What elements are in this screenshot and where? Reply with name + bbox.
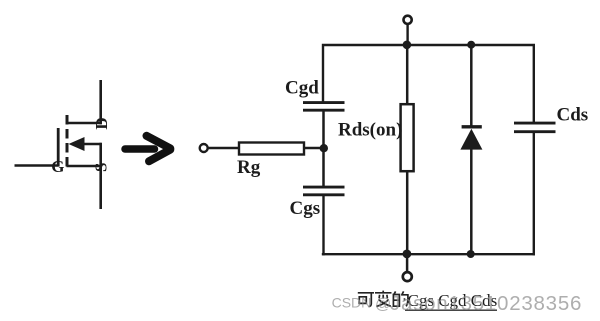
svg-text:Cgs: Cgs <box>290 198 321 219</box>
svg-text:S: S <box>92 163 111 172</box>
drain terminal (top) <box>404 16 412 24</box>
wire top rail <box>323 45 534 122</box>
svg-text:Rg: Rg <box>237 157 261 178</box>
big transform arrow <box>125 136 170 162</box>
caption chinese char 可 <box>358 293 374 307</box>
node bottom rail junction dot 1 <box>403 250 412 259</box>
gate input terminal <box>200 144 208 152</box>
wire rail to Rds(on) <box>406 45 409 105</box>
svg-text:D: D <box>92 117 111 129</box>
svg-text:Cds: Cds <box>557 105 589 126</box>
transistor Q1 source lead <box>67 143 102 209</box>
source terminal (bottom) <box>403 272 412 281</box>
wire terminal to Rg <box>208 147 240 149</box>
wire rail to diode <box>470 45 473 127</box>
svg-text:G: G <box>51 157 64 176</box>
caption underline <box>405 309 497 311</box>
wire diode to bottom rail <box>470 149 473 255</box>
transistor Q1 channel (dashed) <box>66 115 69 170</box>
svg-text:@: @ <box>375 296 391 313</box>
svg-text:CSDN: CSDN <box>332 295 372 311</box>
node bottom rail junction dot 2 <box>467 250 475 258</box>
capacitor Cgd <box>303 103 345 111</box>
wire Rg to gate node <box>304 147 326 149</box>
node top rail junction dot 2 <box>467 41 475 49</box>
node top rail junction dot 1 <box>403 41 412 50</box>
svg-text:Cgd: Cgd <box>285 78 319 99</box>
capacitor Cds <box>514 123 556 132</box>
node gate junction dot <box>320 144 328 152</box>
caption chinese char 的 <box>393 291 408 306</box>
svg-text:Rds(on): Rds(on) <box>338 119 402 140</box>
wire bottom rail <box>322 253 535 255</box>
wire Rds(on) to bottom rail <box>406 171 409 255</box>
capacitor Cgs <box>303 187 345 195</box>
caption chinese char 变 <box>375 291 392 307</box>
svg-text:Jason13510238356: Jason13510238356 <box>390 292 582 315</box>
transistor Q1 body arrow <box>69 137 102 151</box>
transistor Q1 gate bar <box>57 128 60 167</box>
diode D1 (body diode) <box>460 127 482 150</box>
transistor Q1 drain lead <box>67 80 102 124</box>
resistor Rds(on) <box>401 104 414 171</box>
transistor Q1 gate lead wire <box>15 164 59 167</box>
wire Cds to bottom rail <box>533 133 535 256</box>
resistor Rg <box>239 143 304 155</box>
wire gate node vertical between Cgd and Cgs <box>322 111 325 187</box>
wire bottom rail to source terminal <box>406 254 409 272</box>
wire Cgs to bottom rail <box>322 196 324 256</box>
wire top terminal to rail <box>406 24 408 45</box>
